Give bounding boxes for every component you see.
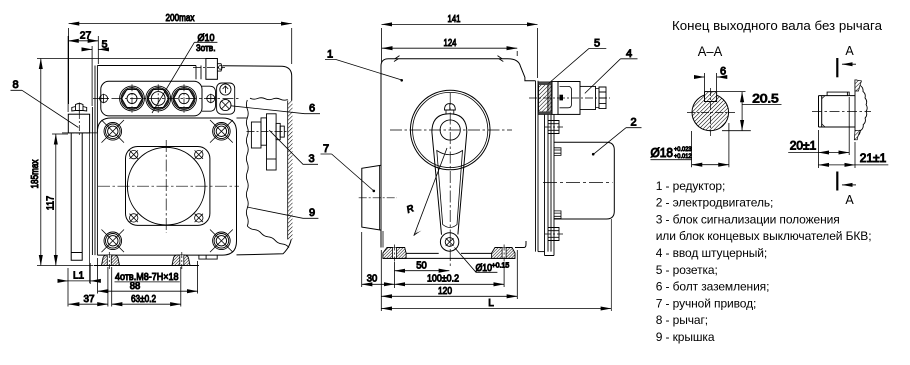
feet (left view) left foot xyxy=(102,255,120,265)
label phi10+0.15 leader xyxy=(455,248,498,273)
svg-text:6 - болт заземления;: 6 - болт заземления; xyxy=(656,280,770,294)
svg-text:9 - крышка: 9 - крышка xyxy=(656,330,715,344)
dim 27 xyxy=(68,36,98,112)
svg-text:100±0.2: 100±0.2 xyxy=(427,273,459,284)
svg-text:+0.15: +0.15 xyxy=(492,263,510,270)
corner bolt bottom-right xyxy=(210,230,233,253)
svg-text:8: 8 xyxy=(12,79,18,91)
label 9 leader xyxy=(247,207,318,218)
spacer band xyxy=(552,82,558,115)
label 6 leader xyxy=(231,106,320,114)
handwheel (item 7) xyxy=(362,165,381,230)
svg-text:4отв.М8-7Н×18: 4отв.М8-7Н×18 xyxy=(115,272,179,283)
feet (left view) right foot xyxy=(172,255,190,265)
breather box xyxy=(206,59,218,80)
bottom tabs xyxy=(199,255,217,259)
gland cylinder (item 4) xyxy=(580,86,596,109)
svg-text:Ø10: Ø10 xyxy=(198,33,215,44)
ground line xyxy=(94,265,199,267)
svg-text:117: 117 xyxy=(45,196,57,211)
lever hub block xyxy=(68,114,89,133)
gland strip right cap xyxy=(202,86,216,111)
svg-text:А: А xyxy=(845,193,854,207)
dim 88 xyxy=(98,258,198,294)
gland nut xyxy=(599,87,606,109)
svg-text:7 - ручной привод;: 7 - ручной привод; xyxy=(656,296,757,310)
svg-text:63±0.2: 63±0.2 xyxy=(131,294,156,305)
lever boss xyxy=(440,233,458,251)
svg-text:Ø10: Ø10 xyxy=(476,263,493,274)
shaft body xyxy=(819,96,856,127)
dim 20.5 xyxy=(717,92,782,131)
dim 50 xyxy=(395,262,450,288)
body left edge xyxy=(380,66,382,248)
dim 120 xyxy=(381,250,517,311)
hand lever (item 8): wing screw xyxy=(72,103,87,114)
svg-text:20±1: 20±1 xyxy=(790,141,817,153)
svg-text:3 - блок сигнализации положени: 3 - блок сигнализации положения xyxy=(656,212,840,226)
svg-text:L: L xyxy=(488,298,494,309)
svg-text:5: 5 xyxy=(594,37,600,49)
label 7 leader xyxy=(321,154,374,191)
dim 117 (vertical) xyxy=(52,134,68,266)
label 4 leader xyxy=(585,59,638,94)
body bottom with feet xyxy=(406,241,526,253)
svg-text:А: А xyxy=(845,44,854,58)
cable entry assembly: knurled block xyxy=(539,82,553,114)
breather cap xyxy=(217,64,222,71)
motor flange plate xyxy=(545,114,555,255)
R leader xyxy=(414,148,447,236)
earth bolt box xyxy=(217,83,235,114)
label 2 leader xyxy=(594,128,642,155)
dim 124 xyxy=(382,48,517,56)
cable gland 2 xyxy=(147,84,169,113)
motor ext line down xyxy=(610,219,612,311)
dim 200max xyxy=(69,24,292,104)
svg-text:5 - розетка;: 5 - розетка; xyxy=(656,263,718,277)
gland strip outer xyxy=(101,81,202,116)
cable gland 1 xyxy=(121,84,143,113)
svg-text:27: 27 xyxy=(80,30,92,42)
top edge tick marks xyxy=(394,56,503,62)
section arrow A top xyxy=(837,44,856,77)
5mm plate line xyxy=(91,107,93,255)
label 3 leader xyxy=(269,130,318,164)
svg-text:6: 6 xyxy=(309,103,315,115)
svg-text:А–А: А–А xyxy=(698,44,723,59)
svg-text:9: 9 xyxy=(309,207,315,219)
svg-text:Конец выходного вала без рычаг: Конец выходного вала без рычага xyxy=(672,18,883,33)
flange hex bolt top xyxy=(548,121,559,134)
ext line hub right xyxy=(89,133,91,283)
ground line mid view xyxy=(383,257,515,259)
top hatched wedge xyxy=(855,80,862,91)
svg-text:2 - электродвигатель;: 2 - электродвигатель; xyxy=(656,196,774,210)
broken hub edge (scalloped) xyxy=(856,80,867,137)
svg-text:141: 141 xyxy=(448,13,461,25)
svg-text:3: 3 xyxy=(308,153,314,165)
strip screw left xyxy=(99,94,109,104)
gland dog-bone contour xyxy=(120,86,197,111)
svg-text:1: 1 xyxy=(327,49,333,61)
dim L xyxy=(381,308,611,310)
connector centerline xyxy=(529,97,610,99)
flange small bolt upper xyxy=(554,148,561,156)
dim 37 xyxy=(69,267,108,307)
dim 141 xyxy=(382,24,538,78)
corner bolt top-left xyxy=(102,120,125,143)
dim 20±1 xyxy=(788,97,849,168)
BKV block silhouette (item 3) xyxy=(247,114,288,170)
label 8 leader xyxy=(11,90,79,127)
dim 21±1 xyxy=(818,142,888,168)
dim 185max (vertical) xyxy=(37,59,206,266)
reducer body outline (item 1) xyxy=(381,59,536,81)
earth bolt (item 6 target) xyxy=(220,99,231,110)
svg-text:7: 7 xyxy=(323,143,329,155)
connector box (item 5) xyxy=(558,82,580,115)
flange hex bolt bottom xyxy=(548,228,559,241)
svg-text:3отв.: 3отв. xyxy=(196,43,216,54)
svg-text:124: 124 xyxy=(444,37,457,49)
cover flange bolt bl xyxy=(130,214,138,222)
body right face xyxy=(536,81,539,252)
cover flange bolt br xyxy=(195,214,203,222)
corner bolt top-right xyxy=(210,120,233,143)
svg-text:4 - ввод штуцерный;: 4 - ввод штуцерный; xyxy=(656,246,767,260)
housing left edge double line xyxy=(95,66,97,256)
svg-text:37: 37 xyxy=(84,294,95,305)
cover flange square xyxy=(126,147,210,226)
strip screw right xyxy=(206,94,216,104)
dim 63±0.2 xyxy=(112,267,181,307)
svg-text:50: 50 xyxy=(416,260,427,271)
shaft end side view xyxy=(812,80,871,140)
section arrow A bottom xyxy=(837,172,856,208)
svg-text:4: 4 xyxy=(626,48,632,60)
section hatch strip at right edge xyxy=(288,101,293,240)
label 1 leader xyxy=(325,59,401,79)
section centerlines xyxy=(687,111,735,113)
corner bolt bottom-left xyxy=(102,230,125,253)
bearing boss double circle xyxy=(410,90,490,170)
svg-text:20.5: 20.5 xyxy=(752,93,779,105)
svg-text:185max: 185max xyxy=(29,159,41,189)
shaft centerline xyxy=(812,110,871,112)
lever web inner lines xyxy=(437,151,463,228)
label phi10 3otv leader xyxy=(152,42,217,113)
svg-text:8 - рычаг;: 8 - рычаг; xyxy=(656,313,708,327)
clamp screw on hub xyxy=(445,104,456,110)
gland centerline xyxy=(93,98,240,100)
dim phi18 xyxy=(651,123,729,167)
lever bar xyxy=(71,133,82,260)
front plate (square flange) xyxy=(97,118,236,255)
cable gland 3 xyxy=(173,84,195,113)
cover flange bolt tl xyxy=(130,150,138,158)
flange bottom xyxy=(538,251,545,253)
svg-text:5: 5 xyxy=(102,39,108,51)
svg-text:88: 88 xyxy=(130,281,141,292)
bottom dims: L1 xyxy=(60,263,98,307)
key on shaft xyxy=(827,92,849,96)
cover flange bolt tr xyxy=(195,150,203,158)
shaft bore circle xyxy=(440,120,460,140)
breather stem xyxy=(196,66,201,80)
foot right (mid view) xyxy=(492,248,515,259)
label 5 leader xyxy=(549,48,607,83)
dim 30 xyxy=(362,232,395,287)
svg-text:2: 2 xyxy=(630,117,636,129)
svg-text:21±1: 21±1 xyxy=(860,153,887,165)
bottom hatched wedge xyxy=(854,130,861,140)
svg-text:6: 6 xyxy=(720,66,726,78)
dim 100±0.2 xyxy=(395,262,505,287)
shaft section circle (A-A) xyxy=(692,94,729,131)
dim 6 (keyway width) xyxy=(695,73,727,91)
svg-text:+0.023: +0.023 xyxy=(674,146,692,153)
svg-text:200max: 200max xyxy=(166,12,196,24)
svg-text:L1: L1 xyxy=(73,271,85,282)
corner chamfers xyxy=(822,96,825,127)
foot left (mid view) xyxy=(383,248,406,259)
centerlines mid xyxy=(390,129,512,131)
svg-text:+0.012: +0.012 xyxy=(674,153,692,160)
svg-text:120: 120 xyxy=(438,286,452,297)
torn edge of motor (left view) xyxy=(250,98,288,100)
dim 5 xyxy=(86,46,104,106)
breather centerline xyxy=(193,66,225,68)
torn piece edge line xyxy=(854,80,856,140)
cover centerlines xyxy=(98,185,239,187)
svg-text:30: 30 xyxy=(367,273,378,284)
motor centerline xyxy=(543,182,613,184)
cover circle (item 9) xyxy=(127,147,205,225)
svg-text:или блок концевых выключателей: или блок концевых выключателей БКВ; xyxy=(656,229,872,243)
svg-text:1 - редуктор;: 1 - редуктор; xyxy=(656,179,726,193)
lever arm (side) xyxy=(432,114,467,235)
earth symbol circle xyxy=(220,84,231,95)
svg-text:Ø18: Ø18 xyxy=(651,146,674,160)
motor body (item 2) xyxy=(554,142,614,219)
gearbox housing outline (left view) xyxy=(97,66,291,255)
line behind plate top xyxy=(237,117,248,119)
keyway xyxy=(705,92,717,102)
flange small bolt lower xyxy=(554,211,561,219)
